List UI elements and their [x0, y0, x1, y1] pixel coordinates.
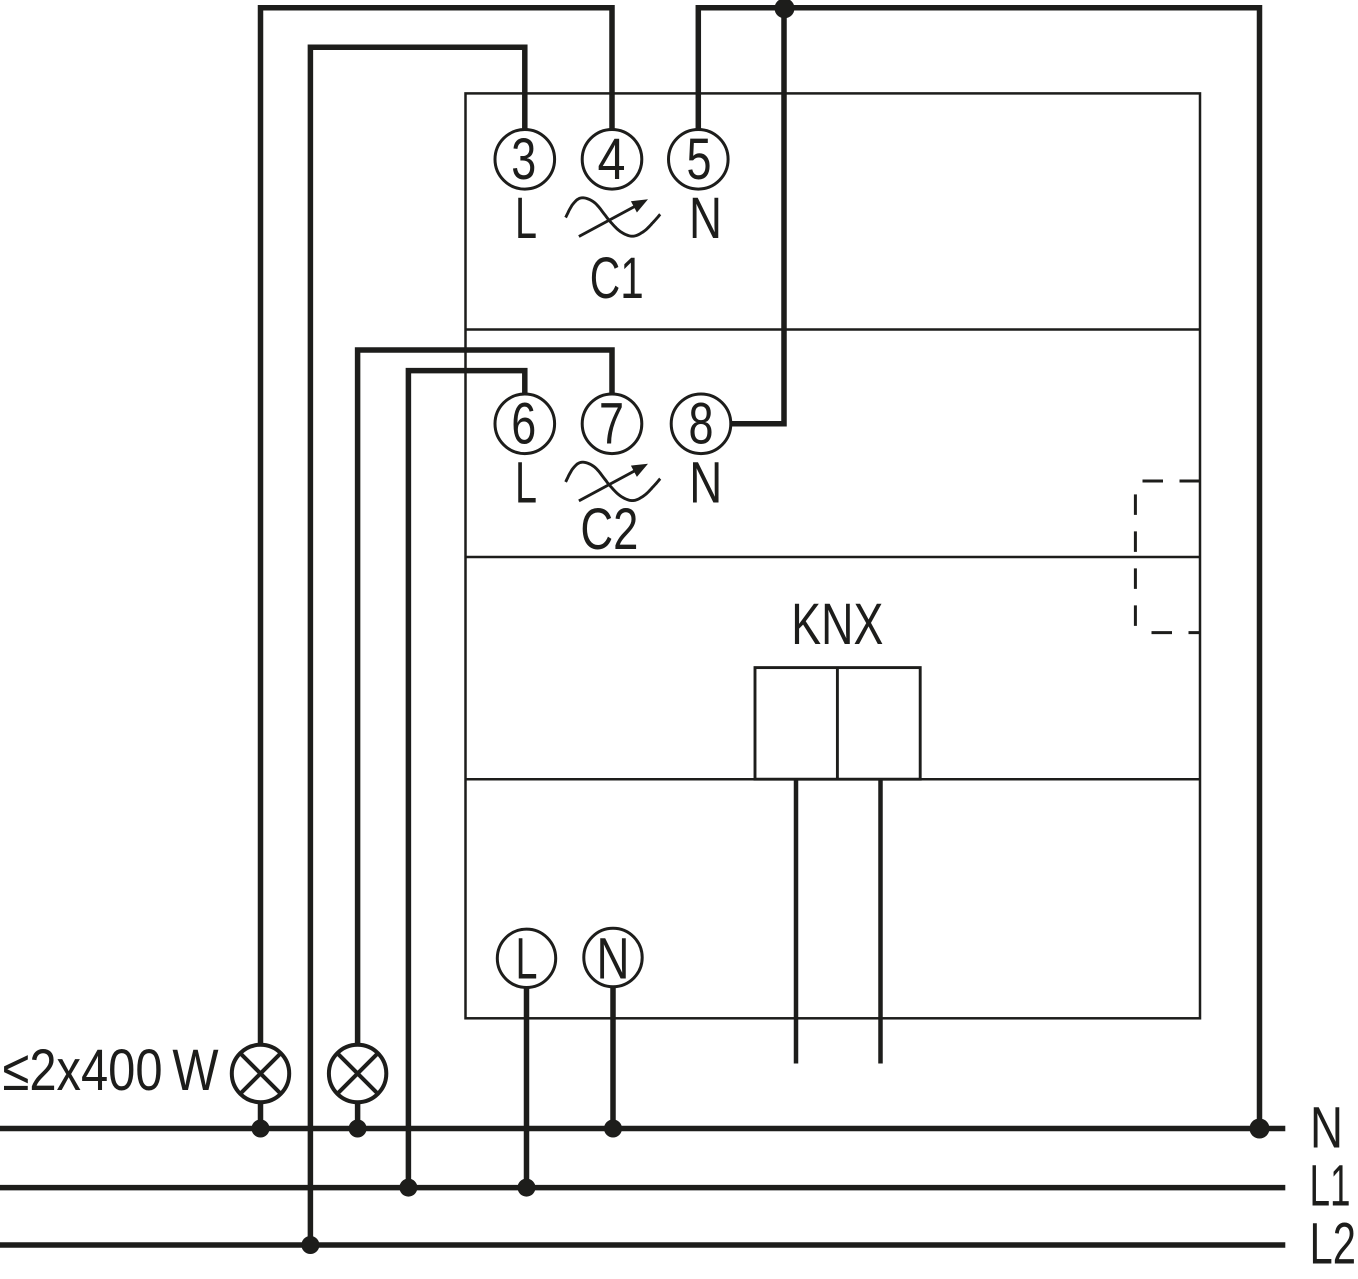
wire: lamp E1 to N bus: [258, 1104, 264, 1129]
svg-text:N: N: [1310, 1096, 1343, 1161]
dimmer symbol C2 arrow: [579, 469, 638, 501]
divider KNX section: [466, 778, 1201, 781]
wire: lamp E2 to N bus: [355, 1104, 361, 1129]
svg-text:5: 5: [687, 127, 712, 192]
junction: right drop on N bus: [1250, 1119, 1270, 1139]
junction: terminal L wire on L1 bus: [518, 1179, 536, 1197]
svg-text:7: 7: [599, 392, 624, 457]
svg-text:L: L: [515, 186, 537, 251]
terminal 4: [582, 130, 642, 190]
junction: lamp E1 on N bus: [252, 1120, 270, 1138]
wire: terminal 6 to L1 bus: [408, 371, 524, 1188]
wire: terminal 8 link to N rail riser: [729, 11, 784, 424]
svg-text:N: N: [689, 186, 722, 251]
KNX connector block: [755, 668, 920, 780]
dashed extension box left: [1134, 481, 1137, 633]
dimmer symbol C1 wave: [566, 198, 661, 236]
wire: KNX bus lead 1: [794, 780, 799, 1064]
dashed extension box top: [1135, 480, 1200, 483]
svg-text:N: N: [597, 927, 630, 992]
junction: terminal 8 riser on N rail: [775, 0, 795, 18]
svg-text:KNX: KNX: [791, 592, 883, 657]
lamp E2: [329, 1045, 386, 1102]
L1 bus: [0, 1185, 1285, 1191]
dashed extension box bottom: [1135, 631, 1200, 634]
junction: terminal 3 wire on L2 bus: [301, 1236, 319, 1254]
svg-text:L1: L1: [1310, 1153, 1351, 1218]
svg-text:N: N: [689, 451, 722, 516]
svg-text:C2: C2: [580, 497, 638, 562]
wire: terminal L to L1 bus: [524, 986, 530, 1188]
wire: terminal 7 to lamp E2: [358, 350, 612, 1043]
lamp E1: [232, 1045, 289, 1102]
terminal 3: [495, 130, 555, 190]
wire: terminal 5 riser, top N rail, right drop to N bus: [698, 8, 1259, 1129]
svg-text:4: 4: [598, 127, 626, 192]
svg-text:≤2x400 W: ≤2x400 W: [3, 1038, 219, 1103]
svg-text:L: L: [515, 451, 537, 516]
device outline U1: [466, 93, 1201, 1018]
terminal 8: [671, 394, 731, 454]
divider channel C1: [466, 328, 1201, 331]
dimmer symbol C2 wave: [566, 462, 661, 500]
terminal N: [584, 928, 642, 986]
N bus: [0, 1126, 1285, 1132]
svg-text:L2: L2: [1310, 1212, 1357, 1277]
terminal L: [497, 929, 555, 987]
wire: terminal 3 to L2 bus: [310, 47, 524, 1245]
dimmer symbol C1 arrow: [579, 205, 638, 237]
terminal 6: [495, 394, 555, 454]
divider channel C2: [466, 556, 1201, 559]
svg-text:C1: C1: [590, 246, 644, 311]
svg-text:L: L: [516, 927, 538, 992]
junction: lamp E2 on N bus: [349, 1120, 367, 1138]
junction: terminal N on N bus: [604, 1120, 622, 1138]
svg-text:6: 6: [511, 392, 536, 457]
wire: KNX bus lead 2: [878, 780, 883, 1064]
terminal 7: [582, 394, 642, 454]
junction: terminal 6 wire on L1 bus: [399, 1179, 417, 1197]
terminal 5: [669, 130, 729, 190]
L2 bus: [0, 1242, 1285, 1248]
svg-text:8: 8: [689, 392, 714, 457]
svg-text:3: 3: [511, 127, 536, 192]
wire: terminal 4 to top rail to lamp E1: [261, 8, 613, 1043]
wire: terminal N to N bus: [610, 986, 616, 1129]
